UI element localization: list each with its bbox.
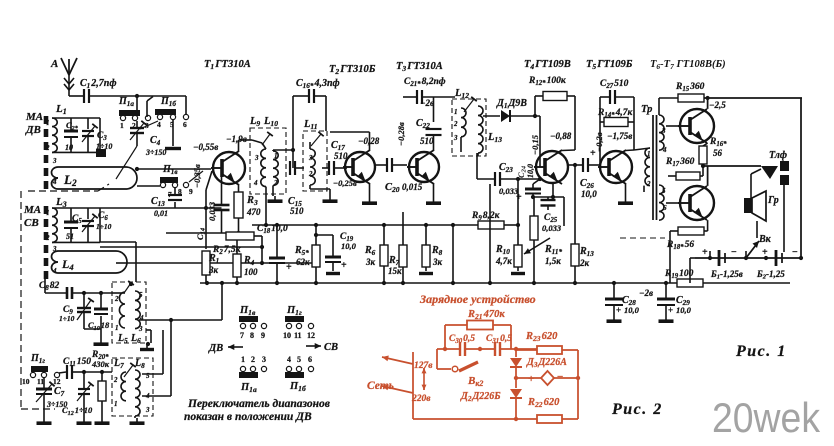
svg-text:R98,2к: R98,2к xyxy=(471,211,501,222)
svg-text:2: 2 xyxy=(45,234,50,242)
svg-text:R17360: R17360 xyxy=(665,157,695,168)
svg-text:−2,5: −2,5 xyxy=(709,100,726,110)
svg-text:0,01: 0,01 xyxy=(154,209,168,218)
svg-text:4: 4 xyxy=(253,179,258,187)
svg-text:показан в положении ДВ: показан в положении ДВ xyxy=(184,411,312,423)
svg-text:ДВ: ДВ xyxy=(208,343,223,354)
svg-text:Б2-1,25: Б2-1,25 xyxy=(756,269,785,281)
svg-text:5: 5 xyxy=(297,355,301,364)
svg-text:1: 1 xyxy=(120,121,124,130)
svg-text:C16*4,3пф: C16*4,3пф xyxy=(296,78,340,90)
svg-text:Вк: Вк xyxy=(758,234,772,245)
svg-text:10,0: 10,0 xyxy=(624,305,640,315)
svg-text:Зарядное устройство: Зарядное устройство xyxy=(419,292,536,306)
svg-text:1÷10: 1÷10 xyxy=(59,314,75,323)
svg-text:1: 1 xyxy=(115,324,119,332)
svg-text:−2в: −2в xyxy=(639,288,653,298)
svg-text:C21*8,2пф: C21*8,2пф xyxy=(404,76,446,88)
svg-text:2: 2 xyxy=(114,295,119,303)
svg-text:Т6-Т7 ГТ108В(Б): Т6-Т7 ГТ108В(Б) xyxy=(650,59,726,71)
svg-text:Д3Д226А: Д3Д226А xyxy=(526,357,567,369)
svg-text:1: 1 xyxy=(46,209,50,217)
svg-text:7: 7 xyxy=(240,331,244,340)
svg-text:3к: 3к xyxy=(432,257,443,267)
svg-text:5: 5 xyxy=(139,291,143,299)
svg-text:3: 3 xyxy=(453,134,458,142)
svg-text:10: 10 xyxy=(22,377,30,386)
svg-text:+: + xyxy=(286,262,292,273)
svg-text:Рис. 1: Рис. 1 xyxy=(735,343,787,360)
svg-text:6: 6 xyxy=(183,120,187,129)
svg-text:−0,88: −0,88 xyxy=(550,131,572,141)
svg-text:3: 3 xyxy=(145,406,150,414)
svg-text:Д1Д9В: Д1Д9В xyxy=(496,98,527,110)
svg-text:11: 11 xyxy=(294,331,302,340)
svg-text:МА: МА xyxy=(23,204,41,216)
svg-text:R15360: R15360 xyxy=(675,82,705,93)
svg-text:+: + xyxy=(341,260,347,271)
svg-text:1÷10: 1÷10 xyxy=(96,222,112,231)
svg-text:2: 2 xyxy=(113,376,118,384)
svg-text:СВ: СВ xyxy=(24,217,39,229)
svg-text:3: 3 xyxy=(138,325,143,333)
svg-text:4: 4 xyxy=(662,146,667,154)
svg-text:−: − xyxy=(731,247,737,258)
svg-text:510: 510 xyxy=(420,136,434,146)
svg-text:12: 12 xyxy=(53,377,61,386)
svg-text:2: 2 xyxy=(453,120,458,128)
svg-text:−0,55в: −0,55в xyxy=(193,142,218,152)
svg-text:ДВ: ДВ xyxy=(25,124,41,136)
svg-text:4,7к: 4,7к xyxy=(495,256,512,266)
svg-text:C12,7пф: C12,7пф xyxy=(80,78,117,90)
svg-text:2: 2 xyxy=(45,144,50,152)
svg-text:2: 2 xyxy=(308,170,313,178)
svg-text:10: 10 xyxy=(283,331,291,340)
svg-text:3: 3 xyxy=(254,154,259,162)
svg-text:0,033: 0,033 xyxy=(542,223,562,233)
svg-text:−0,28в: −0,28в xyxy=(396,122,406,146)
svg-text:Рис. 2: Рис. 2 xyxy=(611,401,663,418)
svg-text:−1,9в: −1,9в xyxy=(226,134,247,144)
svg-text:510: 510 xyxy=(290,206,304,216)
svg-text:C27510: C27510 xyxy=(600,79,629,90)
svg-text:+: + xyxy=(702,247,708,258)
svg-text:15к: 15к xyxy=(388,266,402,276)
svg-text:−0,25в: −0,25в xyxy=(333,178,357,188)
svg-text:4: 4 xyxy=(287,355,291,364)
svg-text:C882: C882 xyxy=(39,281,60,292)
svg-text:1: 1 xyxy=(114,400,118,408)
svg-text:Переключатель диапазонов: Переключатель диапазонов xyxy=(187,398,330,410)
svg-text:1: 1 xyxy=(241,355,245,364)
svg-text:8: 8 xyxy=(250,331,254,340)
svg-text:3: 3 xyxy=(262,355,266,364)
svg-text:Б1-1,25в: Б1-1,25в xyxy=(710,269,743,281)
svg-text:10: 10 xyxy=(65,143,73,152)
svg-text:100: 100 xyxy=(244,267,258,277)
svg-text:−1,75в: −1,75в xyxy=(607,131,632,141)
svg-text:C1810,0: C1810,0 xyxy=(257,224,288,235)
svg-text:1: 1 xyxy=(46,119,50,127)
svg-text:1: 1 xyxy=(647,150,651,158)
svg-text:220в: 220в xyxy=(411,394,431,404)
svg-text:2: 2 xyxy=(251,355,255,364)
svg-text:Тлф: Тлф xyxy=(769,150,787,161)
svg-text:МА: МА xyxy=(25,111,43,123)
svg-text:R12*100к: R12*100к xyxy=(528,76,567,87)
svg-text:R22620: R22620 xyxy=(527,397,560,409)
svg-text:6: 6 xyxy=(308,355,312,364)
svg-text:Сеть: Сеть xyxy=(367,380,394,392)
svg-text:−: − xyxy=(792,247,798,258)
svg-text:51: 51 xyxy=(66,232,74,241)
svg-text:470: 470 xyxy=(246,207,261,217)
svg-text:0,015: 0,015 xyxy=(402,182,423,192)
svg-text:+: + xyxy=(668,305,673,315)
svg-text:СВ: СВ xyxy=(324,342,338,353)
svg-text:1: 1 xyxy=(454,108,458,116)
svg-text:Тр: Тр xyxy=(641,104,652,115)
svg-text:−0,35в: −0,35в xyxy=(192,164,202,188)
svg-text:62к: 62к xyxy=(296,257,310,267)
svg-text:3к: 3к xyxy=(208,265,219,275)
svg-text:430к: 430к xyxy=(91,359,110,369)
svg-text:R21470к: R21470к xyxy=(467,309,505,321)
svg-text:1,5к: 1,5к xyxy=(545,256,561,266)
svg-text:А: А xyxy=(50,58,58,70)
svg-text:10,0: 10,0 xyxy=(341,241,357,251)
svg-text:R23620: R23620 xyxy=(525,331,558,343)
svg-text:−0,2в: −0,2в xyxy=(594,132,604,152)
svg-text:5: 5 xyxy=(662,187,666,195)
svg-text:10,0: 10,0 xyxy=(581,189,597,199)
svg-text:Д2Д226Б: Д2Д226Б xyxy=(460,391,501,403)
svg-text:20wek: 20wek xyxy=(712,394,821,441)
svg-text:2к: 2к xyxy=(579,258,590,268)
svg-text:10,0: 10,0 xyxy=(676,305,692,315)
svg-text:3: 3 xyxy=(308,154,313,162)
svg-text:10,0: 10,0 xyxy=(526,164,535,178)
svg-text:2: 2 xyxy=(646,180,651,188)
svg-text:9: 9 xyxy=(261,331,265,340)
svg-text:3: 3 xyxy=(661,127,666,135)
svg-text:−: − xyxy=(557,371,563,383)
svg-text:+: + xyxy=(528,373,534,385)
svg-text:3: 3 xyxy=(52,157,57,165)
svg-text:3÷150: 3÷150 xyxy=(145,148,166,157)
svg-text:+: + xyxy=(616,305,621,315)
svg-text:Гр: Гр xyxy=(767,195,779,206)
svg-text:6: 6 xyxy=(663,204,667,212)
svg-text:+: + xyxy=(516,192,522,203)
svg-text:56: 56 xyxy=(713,148,723,158)
svg-text:1: 1 xyxy=(274,152,278,160)
svg-text:−0,15: −0,15 xyxy=(530,134,540,155)
svg-text:3к: 3к xyxy=(365,257,376,267)
svg-text:12: 12 xyxy=(307,331,315,340)
